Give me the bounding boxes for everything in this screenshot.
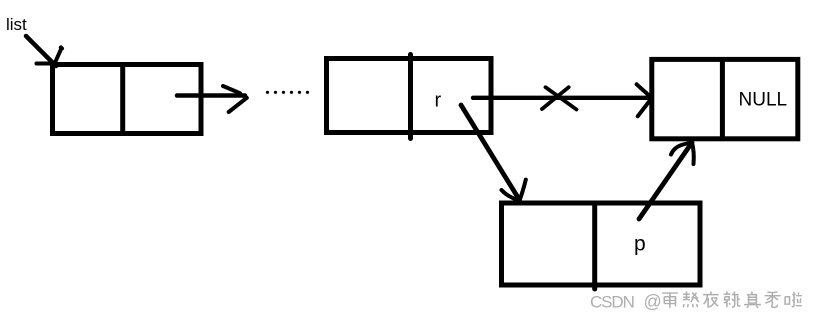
svg-text:CSDN: CSDN (590, 293, 634, 312)
svg-text:list: list (6, 15, 27, 34)
svg-text:p: p (634, 233, 646, 256)
svg-text:NULL: NULL (739, 89, 788, 110)
svg-text:r: r (435, 90, 442, 112)
svg-text:@: @ (644, 292, 662, 312)
